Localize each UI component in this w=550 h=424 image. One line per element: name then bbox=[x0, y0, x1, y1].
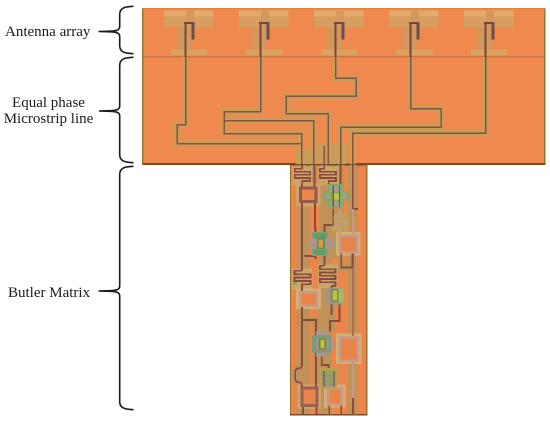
feed band ANT1 bbox=[178, 28, 192, 50]
green accent D1 bbox=[293, 272, 297, 276]
connector L3 legs bbox=[303, 406, 317, 415]
connector halos bbox=[299, 165, 306, 271]
coupler C1 bbox=[323, 184, 348, 208]
feed line ANT4 bbox=[410, 22, 412, 57]
trace halos bbox=[177, 57, 485, 164]
connector C3 to C4 bbox=[330, 305, 340, 332]
connector port2 bbox=[314, 165, 316, 188]
strip left edge bbox=[290, 165, 291, 416]
ring R3 halo bbox=[324, 385, 346, 408]
meander B halo bbox=[319, 167, 339, 186]
board bottom edge bbox=[143, 163, 546, 165]
wire antenna5 core bbox=[353, 57, 486, 164]
connector right column lower pink bbox=[352, 209, 354, 398]
band center upper bbox=[320, 166, 344, 259]
strip bottom edge bbox=[290, 414, 368, 416]
ring L2 bbox=[300, 292, 317, 306]
wire antenna4 halo bbox=[341, 57, 441, 164]
feed band ANT4 bbox=[403, 28, 417, 50]
connector right stub bbox=[353, 208, 358, 210]
component M striped bbox=[319, 368, 337, 389]
wire antenna2 lower halo bbox=[224, 121, 314, 165]
port junction tan fill bbox=[321, 147, 345, 164]
wire port6 core bbox=[323, 146, 325, 164]
brace equal phase bbox=[99, 57, 134, 162]
feed hook ANT3 bbox=[334, 22, 345, 24]
patch ANT3 bbox=[314, 10, 363, 16]
feed line ANT5 bbox=[485, 22, 487, 57]
coupling bar ANT1 bbox=[171, 49, 208, 55]
feed band ANT2 bbox=[253, 28, 267, 50]
label: Butler Matrix bbox=[8, 285, 90, 302]
band left bbox=[297, 166, 311, 415]
feed band ANT3 bbox=[328, 28, 342, 50]
patch ANT5 bbox=[464, 10, 513, 16]
board substrate top bbox=[142, 8, 546, 165]
connector port B bbox=[324, 165, 328, 185]
board body bbox=[143, 8, 546, 165]
wire port6 halo bbox=[321, 146, 327, 164]
feed hook ANT2 bbox=[259, 22, 270, 24]
brace butler matrix bbox=[99, 166, 134, 409]
feed line ANT3 bbox=[335, 22, 337, 57]
meander D bbox=[295, 271, 311, 288]
ring L2 halo bbox=[296, 289, 321, 310]
label: Antenna array bbox=[5, 24, 90, 41]
connector left column bbox=[301, 165, 303, 361]
feed hook ANT5 bbox=[484, 22, 495, 24]
band center lower bbox=[319, 259, 333, 415]
connector C2 left stub bbox=[305, 253, 316, 259]
meander A bbox=[295, 165, 311, 187]
antenna element 5 bbox=[464, 10, 513, 57]
antenna element 1 bbox=[164, 10, 213, 57]
ring R2 halo bbox=[336, 334, 362, 365]
meander C bbox=[334, 209, 346, 236]
meander A halo bbox=[293, 167, 313, 186]
coupling bar ANT3 bbox=[321, 49, 358, 55]
wire antenna2 core bbox=[224, 57, 302, 144]
board right edge bbox=[544, 8, 546, 165]
wire antenna2 lower core bbox=[224, 121, 314, 165]
connector M to R3 bbox=[328, 387, 330, 389]
equal phase microstrip lines bbox=[177, 57, 485, 164]
connector left hook to L3 bbox=[302, 320, 316, 388]
coupler C4 bbox=[312, 332, 334, 357]
feed line ANT2 bbox=[260, 22, 262, 57]
patch ANT1 bbox=[164, 10, 213, 16]
strip substrate bbox=[290, 165, 367, 416]
patch ANT2 bbox=[239, 10, 288, 16]
braces bbox=[99, 6, 134, 409]
brace antenna array bbox=[99, 6, 134, 53]
ring R3 bbox=[328, 388, 342, 404]
connector C4 to M bbox=[322, 357, 329, 372]
ring L1 halo bbox=[296, 184, 321, 207]
feed hook ANT4 bbox=[409, 22, 420, 24]
board top edge bbox=[143, 8, 546, 9]
connector C2 to E bbox=[324, 256, 326, 266]
meander D halo bbox=[292, 269, 313, 291]
connector port4 bbox=[340, 165, 342, 185]
coupling bar ANT2 bbox=[246, 49, 283, 55]
connector R1 legs bridge bbox=[341, 252, 352, 267]
antenna element 2 bbox=[239, 10, 288, 57]
ring L3 halo bbox=[298, 385, 322, 410]
label: Equal phase Microstrip line bbox=[0, 95, 97, 128]
butler matrix strip bbox=[290, 164, 368, 416]
strip right edge bbox=[366, 165, 367, 416]
connector E to C3 bbox=[331, 286, 333, 288]
coupling bar ANT5 bbox=[471, 49, 508, 55]
connector right column upper bbox=[352, 165, 354, 210]
meander E halo bbox=[318, 264, 338, 289]
feed hook ANT1 bbox=[184, 22, 195, 24]
meander E bbox=[320, 266, 336, 286]
antenna array bbox=[164, 10, 513, 57]
connector S-curve bbox=[295, 361, 302, 388]
band right bbox=[348, 166, 358, 415]
green accent E1 bbox=[332, 274, 337, 285]
antenna element 4 bbox=[389, 10, 438, 57]
connector L1 to C2 bbox=[314, 202, 317, 233]
wire antenna2 halo bbox=[224, 57, 302, 144]
ring R1 bbox=[340, 236, 358, 253]
coupler C3 bbox=[327, 288, 344, 305]
wire antenna3 halo bbox=[286, 57, 356, 164]
substrate division line bbox=[143, 56, 546, 57]
wire antenna1 core bbox=[177, 57, 301, 164]
ring L3 bbox=[302, 388, 317, 406]
strip top boundary line bbox=[290, 164, 367, 166]
ring R1 halo bbox=[336, 232, 361, 256]
feed line ANT1 bbox=[185, 22, 187, 57]
coupler C2 bbox=[309, 232, 335, 256]
board left edge bbox=[142, 8, 144, 165]
patch ANT4 bbox=[389, 10, 438, 16]
green accent D2 bbox=[293, 281, 297, 285]
feed band ANT5 bbox=[478, 28, 492, 50]
wire antenna1 halo bbox=[177, 57, 301, 164]
meander B bbox=[320, 165, 336, 184]
wire antenna4 core bbox=[341, 57, 441, 164]
antenna element 3 bbox=[314, 10, 363, 57]
ring R2 bbox=[340, 337, 358, 361]
connector C1 to C2 jog bbox=[325, 209, 334, 233]
meander C halo bbox=[332, 214, 350, 232]
wire antenna3 core bbox=[286, 57, 356, 164]
connector R3 legs bbox=[329, 404, 341, 414]
wire antenna5 halo bbox=[353, 57, 486, 164]
ring L1 bbox=[301, 188, 317, 202]
coupling bar ANT4 bbox=[396, 49, 433, 55]
